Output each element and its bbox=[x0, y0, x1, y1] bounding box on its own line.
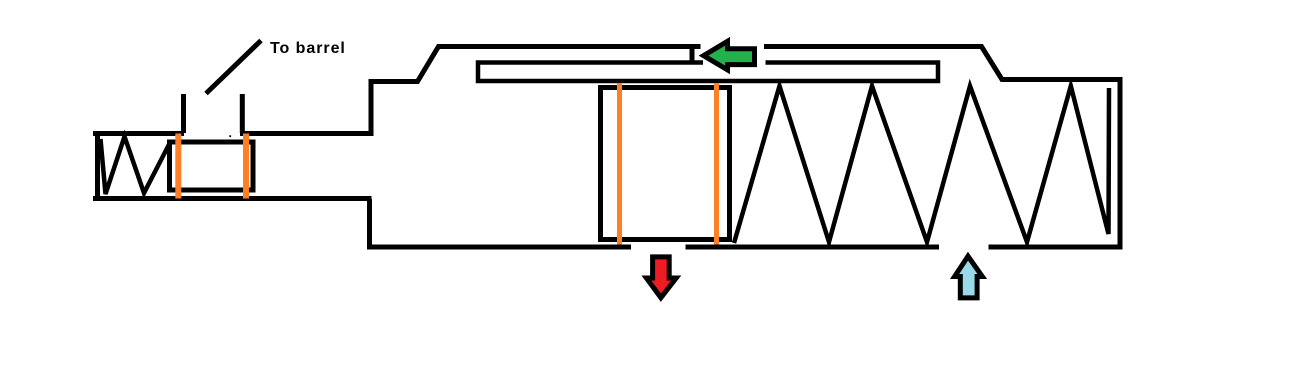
svg-text:To barrel: To barrel bbox=[270, 40, 346, 57]
